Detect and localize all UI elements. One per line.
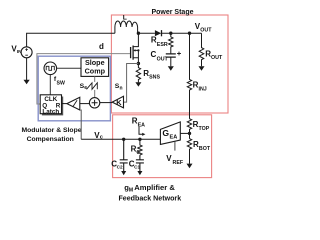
- resistor ROUT: [199, 33, 204, 66]
- ground ROUT: [199, 66, 205, 71]
- slope sawtooth glyph: [86, 82, 98, 90]
- resistor RESR: [169, 33, 173, 54]
- svg-text:C2: C2: [117, 164, 123, 169]
- svg-text:OUT: OUT: [211, 55, 223, 61]
- wire VIN to rail: [27, 33, 115, 47]
- comparator PWM: [67, 97, 80, 110]
- wire summer to comparator: [80, 103, 90, 105]
- svg-text:OUT: OUT: [200, 27, 212, 33]
- slope comp box: [81, 58, 109, 77]
- ground RBOT: [187, 164, 193, 169]
- ground RSNS: [135, 82, 141, 86]
- wire diode to VOUT: [162, 32, 202, 34]
- node FB: [188, 132, 191, 135]
- modulator box: [38, 56, 110, 121]
- svg-text:SNS: SNS: [149, 75, 160, 81]
- transistor Q1: [130, 47, 132, 58]
- node source: [137, 62, 140, 65]
- svg-text:C: C: [151, 50, 157, 59]
- op-amp GEA: [160, 122, 180, 144]
- wire Vc line: [80, 110, 82, 140]
- power stage box: [111, 15, 228, 113]
- resistor RC: [138, 139, 142, 155]
- svg-text:TOP: TOP: [199, 126, 210, 132]
- svg-text:REF: REF: [173, 160, 184, 166]
- summer: [89, 98, 99, 108]
- node RINJ branch: [188, 32, 191, 35]
- diode D1: [155, 30, 161, 36]
- svg-text:K: K: [116, 98, 122, 107]
- wire osc to latch clk: [49, 75, 51, 95]
- svg-text:Amplifier &: Amplifier &: [134, 183, 175, 192]
- svg-text:EA: EA: [170, 135, 178, 141]
- svg-text:n: n: [120, 85, 123, 91]
- svg-text:V: V: [166, 154, 172, 163]
- wire summer to K: [100, 102, 112, 104]
- node switch: [137, 32, 140, 35]
- inductor L: [115, 21, 138, 33]
- svg-text:Power Stage: Power Stage: [151, 9, 193, 16]
- capacitor CC1: [136, 155, 144, 171]
- node CC2: [122, 138, 125, 141]
- wire osc to slope comp: [57, 67, 81, 69]
- wire FB to amp: [180, 132, 189, 134]
- svg-text:Comp: Comp: [85, 66, 106, 75]
- svg-text:Latch: Latch: [42, 108, 59, 115]
- resistor RTOP: [187, 119, 191, 139]
- wire VREF: [174, 141, 176, 150]
- svg-text:Modulator & Slope: Modulator & Slope: [21, 127, 81, 134]
- ground COUT: [170, 57, 172, 66]
- svg-text:BOT: BOT: [199, 146, 211, 152]
- resistor RBOT: [187, 139, 191, 164]
- capacitor CC2: [120, 139, 128, 171]
- svg-text:L: L: [123, 15, 127, 22]
- svg-text:SW: SW: [57, 80, 65, 86]
- node ESR branch: [169, 32, 172, 35]
- gain K: [112, 96, 123, 108]
- svg-text:M: M: [129, 188, 134, 194]
- gm amplifier feedback box: [113, 115, 212, 178]
- wire rail to diode: [138, 32, 155, 34]
- ground VIN: [26, 58, 28, 80]
- svg-text:ESR: ESR: [157, 42, 168, 48]
- svg-text:C: C: [136, 150, 140, 156]
- svg-text:e: e: [84, 85, 87, 91]
- svg-text:c: c: [100, 134, 103, 140]
- svg-text:Feedback Network: Feedback Network: [118, 194, 181, 202]
- wire gate drive d: [37, 54, 131, 104]
- svg-text:Compensation: Compensation: [27, 136, 74, 143]
- wire current sense: [124, 64, 139, 103]
- resistor RINJ: [187, 33, 191, 119]
- svg-text:INJ: INJ: [199, 87, 207, 93]
- resistor RSNS: [136, 64, 140, 83]
- node RC: [138, 138, 141, 141]
- svg-text:d: d: [99, 42, 104, 51]
- wire Se: [94, 76, 96, 97]
- latch: [42, 97, 63, 116]
- oscillator fsw: [44, 62, 57, 75]
- capacitor COUT: [166, 54, 176, 57]
- svg-text:C1: C1: [134, 164, 140, 169]
- svg-text:OUT: OUT: [157, 57, 169, 63]
- wire comparator to latch R: [62, 103, 67, 105]
- svg-text:G: G: [162, 128, 169, 138]
